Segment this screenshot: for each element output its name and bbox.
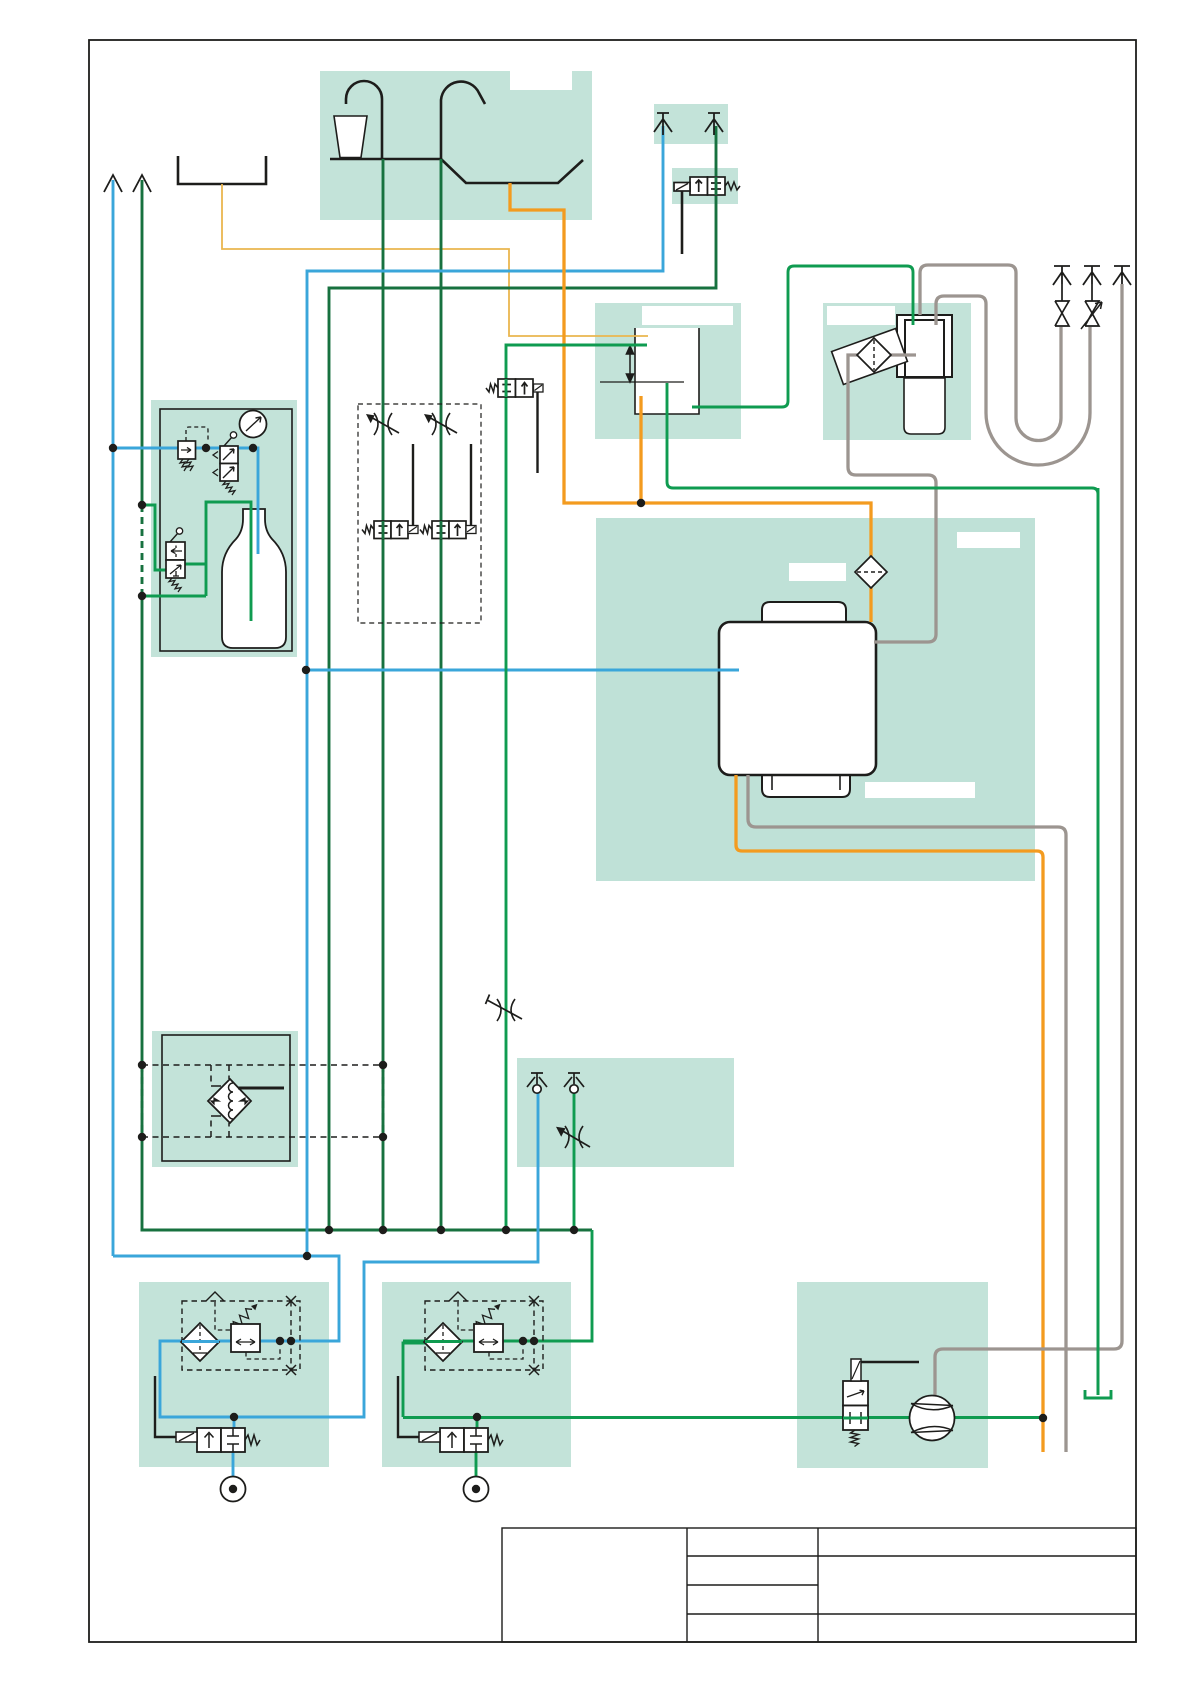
heater lower body [904, 378, 945, 434]
wire blue coupling stub [232, 1452, 235, 1477]
bottle unit housing [160, 409, 292, 651]
node blue gauge tap [249, 444, 257, 452]
solenoid valve SV2 [420, 444, 476, 539]
node blue manifold join [303, 1252, 311, 1260]
spittoon main body [719, 622, 876, 775]
pump P1 [910, 1396, 955, 1441]
wire yellow drain line [222, 184, 648, 336]
node separator top right [379, 1061, 387, 1069]
wire green filter2 loop [403, 1343, 426, 1417]
separator internals [142, 1065, 383, 1137]
solenoid valve SV3 tank water [486, 379, 543, 473]
spittoon top cap [762, 602, 846, 622]
wire gray heater steam U outer [936, 296, 1090, 465]
wire blue to spittoon [306, 669, 739, 672]
panel: water bottle unit [151, 400, 297, 657]
faucet hook right [441, 82, 485, 159]
filter diamond FD2 [424, 1323, 462, 1361]
coupling outlet 1 [221, 1477, 246, 1502]
filter F2 heater (tilted) [857, 338, 891, 372]
filter-regulator unit 2 (water) [398, 1292, 543, 1502]
needle valve V2 [1081, 284, 1102, 329]
solenoid valve SV1 [362, 444, 418, 539]
separator housing [162, 1035, 290, 1161]
shutoff valve V1 [1055, 284, 1069, 326]
wire green filter2 valve stub [476, 1417, 479, 1430]
PANELS [139, 71, 1035, 1468]
label spittoon panel right [957, 532, 1020, 548]
wire green through SV3 [505, 379, 508, 397]
wire green vent to manifold row [141, 596, 144, 1230]
auto drain mark FR1 [206, 1292, 224, 1301]
node blue regulator-valve [202, 444, 210, 452]
wire green dashed separator right [382, 1065, 385, 1137]
panel: main spittoon unit [596, 518, 1035, 881]
node blue spittoon tap [302, 666, 310, 674]
panel: handpiece outlets [517, 1058, 734, 1167]
label spittoon bottom [865, 782, 975, 798]
wire blue to bottle regulator [113, 448, 258, 554]
node separator bottom right [379, 1133, 387, 1141]
wire green manifold to filter2 [534, 1230, 592, 1341]
plugged port line FR1 [290, 1301, 292, 1370]
label spittoon filter [789, 563, 846, 581]
restrictor on green supply [486, 995, 523, 1022]
faucet hook left [346, 81, 382, 159]
panel: filter-regulator unit 2 [382, 1282, 571, 1467]
handpiece nozzle water [564, 1073, 584, 1093]
exhaust arrow blue line [654, 113, 672, 135]
regulator box RG1 [231, 1324, 260, 1352]
bottle outline [222, 509, 286, 648]
plugged port line FR2 [533, 1301, 535, 1370]
panel: suction pump unit [797, 1282, 988, 1468]
filter-regulator unit 1 (air) [155, 1292, 300, 1502]
node green bottle vent [138, 592, 146, 600]
node FR1 valve tap [230, 1413, 238, 1421]
bottle panel components [166, 411, 267, 592]
auto drain mark FR2 [449, 1292, 467, 1301]
wire green tank to heater [692, 266, 913, 407]
exhaust arrow green line [705, 113, 723, 135]
basin bowl [441, 159, 583, 183]
level tank walls [635, 328, 699, 414]
panel: cuspidor/basin unit [320, 71, 592, 220]
node FR2 out a [519, 1337, 527, 1345]
heater filter holder (tilted) [832, 329, 908, 385]
pilot dashed FR1 [215, 1302, 231, 1330]
exhaust arrow pump riser [1113, 266, 1131, 285]
node FR1 out b [287, 1337, 295, 1345]
node manifold g3 [437, 1226, 445, 1234]
wire green cuspidor valve line [329, 196, 716, 1230]
throttle T2 [424, 413, 457, 435]
node green bottle in [138, 501, 146, 509]
gauge G1 [240, 411, 267, 438]
panel: pilot valve top right [672, 168, 738, 204]
wire green pump to drain junction [954, 1416, 1043, 1419]
wire green tank feed [506, 345, 647, 1230]
wire green dashed vent section [141, 505, 144, 596]
node manifold g5 [570, 1226, 578, 1234]
wire orange tank overflow [639, 396, 642, 503]
shutoff valve FV2 [440, 1428, 464, 1452]
shutoff valve FV1 [197, 1428, 221, 1452]
wire green coupling2 stub [475, 1452, 478, 1477]
pump valve PV1 [843, 1359, 919, 1447]
node FR2 valve tap [473, 1413, 481, 1421]
wire green handpiece line [573, 1093, 576, 1230]
coupling outlet 2 [464, 1477, 489, 1502]
exhaust arrow V1 [1053, 266, 1071, 285]
wire gray heater filter to spittoon [848, 355, 936, 642]
wire green bottle valve out [185, 502, 251, 621]
wire green filter2 regulator row [403, 1340, 534, 1343]
handpiece throttle [556, 1126, 590, 1148]
wire blue main riser [307, 126, 663, 1256]
dashed enclosure FR1 [182, 1301, 300, 1370]
drain bracket symbol [1085, 1390, 1111, 1398]
wire green through pump valve PV1 [843, 1417, 868, 1420]
regulator R1 [186, 427, 208, 442]
wire green through pilot valve U10 [715, 177, 718, 195]
hand valve HV1 [220, 446, 238, 464]
basin table line [330, 158, 441, 161]
relief zigzag FR1 [230, 1306, 255, 1331]
arrow vent blue top-left [104, 175, 122, 192]
filter F1 spittoon (on orange) [855, 556, 887, 588]
label heater panel [827, 306, 895, 325]
panel: exhaust arrows top right [654, 104, 728, 144]
wire green dashed separator left [141, 1065, 144, 1137]
node manifold g2 [379, 1226, 387, 1234]
regulator box RG2 [474, 1324, 503, 1352]
node orange tank join [637, 499, 645, 507]
spittoon bottom cap [762, 775, 850, 797]
handpiece nozzle air [527, 1073, 547, 1093]
wire green drain bracket line [1097, 488, 1100, 1395]
wire gray spittoon suction [748, 775, 1066, 1452]
cup [334, 116, 367, 158]
relief zigzag FR2 [473, 1306, 498, 1331]
wire gray filter stub [886, 353, 916, 356]
wire green through SV1 [382, 521, 385, 539]
label top panel [510, 71, 572, 90]
wire green manifold row [141, 1229, 593, 1232]
wire green bowl rinse line [440, 159, 443, 1230]
wire green through FR2 diamond [425, 1340, 462, 1343]
spittoon bottom cap ticks [771, 775, 773, 790]
wire blue air supply left [112, 180, 115, 1256]
wire blue filter valve stub [233, 1417, 236, 1430]
heater inner vessel [905, 320, 944, 377]
panel: filter-regulator unit 1 [139, 1282, 329, 1467]
node blue regulator tap [109, 444, 117, 452]
wire green bottle vent [142, 595, 206, 598]
pilot dashed FR2 [458, 1302, 474, 1330]
throttle T1 [366, 413, 399, 435]
valve bank dashed enclosure [358, 404, 481, 623]
wire green pilot valve to exhaust [715, 126, 718, 176]
arrow vent green top-left [133, 175, 151, 192]
wire green bottom row to pump [403, 1416, 909, 1419]
node manifold g4 [502, 1226, 510, 1234]
node FR2 out b [530, 1337, 538, 1345]
wire blue through FR1 diamond [182, 1340, 219, 1343]
level tank water line [600, 381, 684, 383]
wire green through SV2 [440, 521, 443, 539]
heater outer shell [897, 315, 952, 377]
wire blue manifold row [113, 1093, 538, 1417]
title block [502, 1528, 1136, 1642]
wire green cup filler line [382, 159, 385, 1230]
node separator bottom left [138, 1133, 146, 1141]
wire green tank dip tube [667, 383, 1098, 1395]
panel: amalgam separator [152, 1031, 298, 1167]
label level tank panel [642, 306, 733, 325]
wire green bottle circuit in [142, 505, 167, 570]
wire orange spittoon drain [736, 775, 1043, 1452]
whip valve WV1 [166, 542, 185, 560]
panel: water level tank [595, 303, 741, 439]
panel: water heater unit [823, 303, 971, 440]
exhaust arrow V2 [1083, 266, 1101, 285]
node manifold g1 [325, 1226, 333, 1234]
wire gray heater steam U inner [920, 265, 1061, 441]
wire orange waste from basin [510, 183, 871, 622]
dashed enclosure FR2 [425, 1301, 543, 1370]
node separator top left [138, 1061, 146, 1069]
level range arrow [626, 346, 633, 382]
filter diamond FD1 [181, 1323, 219, 1361]
node FR1 out a [276, 1337, 284, 1345]
node pump drain join [1039, 1414, 1047, 1422]
wire green air vent line left [141, 180, 144, 505]
drain funnel top left [178, 156, 266, 184]
wire gray pump exhaust riser [935, 284, 1122, 1398]
pilot valve U10 top right [674, 177, 740, 254]
